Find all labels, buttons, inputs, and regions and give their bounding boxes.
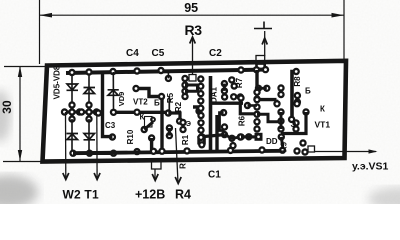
wire VD8 lead	[88, 119, 90, 153]
wire VT2 base trace	[136, 89, 161, 97]
svg-text:R10: R10	[126, 129, 135, 144]
pad r7 cluster b	[228, 76, 235, 83]
svg-text:R5: R5	[166, 92, 175, 103]
wire mr trace	[257, 87, 267, 90]
pad dd2	[278, 133, 285, 140]
svg-text:Б: Б	[154, 99, 160, 108]
jumper square common	[256, 56, 265, 65]
pad mr9	[221, 131, 228, 138]
diode VD6	[84, 88, 96, 94]
pad da1 p1	[197, 75, 204, 82]
pad v1	[158, 93, 165, 100]
pad bb1	[150, 148, 157, 155]
pad dd1b	[245, 133, 252, 140]
wire DA1 vertical trace	[209, 76, 213, 151]
pad top t3	[157, 67, 164, 74]
pad col257 d	[253, 111, 260, 118]
pad bl1	[69, 150, 76, 157]
wire VD7 lead	[71, 119, 73, 153]
pad node8	[93, 108, 100, 115]
extension line 30 bottom	[3, 161, 43, 163]
pad r8a	[277, 84, 284, 91]
pad m4	[181, 88, 188, 95]
pad rr1	[277, 108, 284, 115]
dimension line 30	[19, 66, 21, 161]
pad mr2	[263, 85, 270, 92]
pad node10	[85, 115, 92, 122]
wire rr trace	[280, 112, 283, 129]
wire square to bus left	[255, 63, 258, 70]
dimension line 95	[40, 14, 345, 16]
dim arrow left	[40, 13, 53, 18]
svg-text:R2: R2	[174, 101, 183, 112]
pad row97 a	[221, 93, 228, 100]
svg-text:VT2: VT2	[133, 98, 148, 107]
wire bottom bus	[73, 151, 283, 153]
wire m bracket	[185, 85, 198, 91]
pad node6	[78, 108, 85, 115]
pad mr4	[253, 95, 260, 102]
pad c3a	[109, 133, 116, 140]
wire T1 lead with arrow	[96, 112, 98, 179]
dim arrow bottom	[18, 150, 22, 161]
pad blx	[148, 134, 155, 141]
wire m11 stub	[168, 128, 171, 136]
pad node3	[61, 108, 68, 115]
dim arrow top	[18, 66, 22, 77]
pad m3	[181, 81, 188, 88]
svg-text:DD: DD	[266, 137, 278, 146]
pad e2 vt1	[292, 125, 299, 132]
pad m5	[181, 93, 188, 100]
jumper square vs1	[308, 146, 315, 152]
pad node1	[68, 101, 75, 108]
pad e1 vt1	[292, 119, 299, 126]
wire mr5	[240, 100, 257, 114]
pad mr6	[220, 109, 227, 116]
svg-text:R4: R4	[175, 188, 191, 202]
svg-text:Б: Б	[305, 87, 311, 96]
svg-text:C4: C4	[126, 48, 139, 59]
scan smudge bottom-left	[0, 175, 38, 209]
svg-text:DA1: DA1	[210, 86, 219, 103]
pad top t6	[262, 66, 269, 73]
pad da1 p7	[197, 119, 204, 126]
pad vs1 c	[301, 148, 308, 155]
wire mr13	[225, 135, 241, 139]
board outline	[43, 61, 347, 162]
svg-text:R6: R6	[238, 115, 247, 126]
pad m16	[198, 141, 205, 148]
pad m13	[195, 107, 202, 114]
pad out1	[293, 100, 300, 107]
component outline near R10	[145, 117, 153, 128]
pad m1	[165, 75, 172, 82]
pad m8	[179, 119, 186, 126]
pad bb4	[227, 147, 234, 154]
extension line 30 top	[4, 66, 46, 68]
square pad dd	[255, 133, 263, 141]
pad da1 p2	[197, 83, 204, 90]
pad m10	[166, 124, 173, 131]
svg-text:R: R	[179, 163, 188, 169]
svg-text:К: К	[320, 105, 325, 114]
jumper square +12V	[152, 162, 162, 170]
pad e vt2	[150, 117, 156, 123]
wire W2 lead with arrow	[65, 112, 67, 179]
pad da1 p8	[197, 126, 204, 133]
wire cross left	[65, 105, 80, 119]
pad col257 e	[253, 118, 260, 125]
pad da1 p5	[197, 105, 204, 112]
wire m13 trace	[193, 107, 199, 115]
pad col257 a	[253, 89, 260, 96]
svg-text:VD5-VD8: VD5-VD8	[53, 65, 62, 99]
pad da1 p4	[197, 97, 204, 104]
svg-text:R9: R9	[280, 141, 289, 152]
pad m11	[166, 132, 173, 139]
pad mr12	[237, 133, 244, 140]
pad x1	[273, 100, 280, 107]
pad VD6 top	[85, 68, 92, 75]
pad r10a	[141, 126, 148, 133]
pad vs1 a	[299, 139, 306, 146]
pad bb6	[279, 147, 286, 154]
wire mid right vert	[257, 70, 277, 103]
wire cross right	[82, 105, 97, 119]
svg-text:Э: Э	[291, 120, 297, 129]
wire blx stub	[150, 138, 153, 151]
pad mr10	[228, 135, 235, 142]
dim arrow right	[332, 13, 345, 18]
pad r10b	[133, 148, 140, 155]
pad row97 b	[237, 93, 244, 100]
pad top t4	[237, 66, 244, 73]
svg-text:C1: C1	[208, 170, 221, 181]
svg-text:30: 30	[0, 100, 14, 114]
wire mid pair stub	[248, 104, 258, 107]
pad mr3	[237, 94, 244, 101]
wire k lead	[281, 112, 306, 134]
wire stair trace	[257, 114, 281, 121]
pad da1 p3	[197, 90, 204, 97]
pad col257 f	[253, 125, 260, 132]
wire r7a trace	[223, 84, 226, 91]
pad stair f	[288, 116, 295, 123]
pad r8b	[277, 91, 284, 98]
pad vs1 b	[293, 147, 300, 154]
wire +12V arrow	[154, 169, 156, 180]
svg-text:C3: C3	[105, 121, 116, 130]
pad VT2 b	[132, 85, 139, 92]
svg-text:R7: R7	[235, 77, 244, 88]
wire R8 trace	[292, 72, 296, 119]
ground symbol	[254, 22, 272, 29]
diode VD9	[108, 90, 119, 96]
jumper square R3	[189, 75, 196, 82]
pad node9	[68, 115, 75, 122]
pad mr1	[255, 85, 262, 92]
pad da1 p9	[197, 134, 204, 141]
wire dd2 trace	[281, 137, 283, 149]
wire horiz y103	[211, 101, 244, 104]
svg-text:VD9: VD9	[117, 92, 126, 107]
wire ground lead with up arrow	[264, 31, 266, 56]
wire r10a stub	[144, 122, 153, 130]
pad r7 cluster c	[231, 82, 238, 89]
scan smudge left-middle	[0, 90, 11, 142]
pad node left	[95, 109, 102, 116]
pad bb2	[158, 148, 165, 155]
pad r7 e	[230, 93, 237, 100]
wire square to bus right	[263, 63, 266, 70]
pad col257 b	[253, 96, 260, 103]
svg-text:R3: R3	[185, 22, 203, 38]
svg-text:W2 T1: W2 T1	[63, 187, 99, 201]
pad m6	[165, 109, 172, 116]
diode VD5	[67, 84, 79, 90]
pad m7	[176, 117, 183, 124]
wire VD5 lead	[71, 73, 73, 106]
pad k vt1	[302, 108, 309, 115]
pad rr3	[277, 125, 284, 132]
pad r7 cluster d	[221, 87, 228, 94]
pad m14	[198, 133, 205, 140]
svg-text:К: К	[140, 113, 145, 122]
pad bb5	[258, 146, 265, 153]
pad node5	[76, 108, 83, 115]
wire m1 stub	[167, 72, 169, 79]
diode VD8	[84, 134, 96, 140]
wire R4 lead arrow	[176, 128, 179, 183]
pad mr8	[221, 123, 228, 130]
wire bottom-left pads bus	[73, 151, 114, 155]
pad b1	[294, 92, 301, 99]
pad mid k1	[110, 109, 117, 116]
wire vs1 lead	[315, 151, 377, 153]
wire vertical from VT2	[160, 97, 163, 152]
pad dd1	[237, 133, 244, 140]
wire dd trace	[241, 135, 255, 138]
wire mr9 left	[203, 135, 225, 137]
extension line right	[343, 0, 345, 61]
wire mid horiz K	[114, 111, 170, 114]
svg-text:R8: R8	[293, 76, 302, 87]
pad bl3	[110, 150, 117, 157]
extension line left	[39, 0, 41, 64]
wire m6 trace	[168, 113, 180, 121]
svg-text:+12В: +12В	[135, 188, 165, 202]
pad bl2	[86, 150, 93, 157]
pad b2	[294, 98, 301, 105]
scan smudge bottom-right	[368, 187, 400, 211]
pad mr11	[229, 142, 236, 149]
svg-text:Э: Э	[186, 121, 191, 128]
pad m2	[181, 75, 188, 82]
svg-text:у.э.VS1: у.э.VS1	[352, 161, 389, 173]
pad VD5 top	[68, 69, 75, 76]
pad rr2	[277, 117, 284, 124]
pad top t5	[253, 66, 260, 73]
pad node7	[85, 108, 92, 115]
pad node4	[68, 108, 75, 115]
diode VD7	[67, 134, 79, 140]
pad m9	[179, 126, 186, 133]
pad mid pair	[244, 102, 251, 109]
svg-text:C2: C2	[209, 48, 222, 59]
wire R3 lead with up arrow	[192, 37, 194, 77]
wire VD9 lead	[112, 72, 114, 111]
wire c3 stub	[103, 72, 113, 137]
wire m12 trace	[168, 97, 170, 114]
wire top bus	[66, 70, 268, 74]
wire vert mid2	[215, 115, 218, 151]
pad r8 top	[293, 68, 300, 75]
pad da1 p6	[197, 112, 204, 119]
svg-text:VT1: VT1	[315, 120, 331, 130]
pad top t2	[133, 67, 140, 74]
svg-text:C5: C5	[152, 48, 165, 59]
wire mr7	[220, 113, 225, 131]
pad bb3	[183, 147, 190, 154]
svg-text:R1: R1	[181, 134, 190, 145]
pad node2	[85, 101, 92, 108]
pad r7 cluster a	[221, 80, 228, 87]
wire VD6 lead	[88, 72, 90, 105]
pad top t1	[109, 68, 116, 75]
pad mid k2	[133, 109, 140, 116]
svg-text:95: 95	[184, 1, 198, 15]
pad col257 c	[253, 103, 260, 110]
square pad m15	[197, 136, 206, 145]
